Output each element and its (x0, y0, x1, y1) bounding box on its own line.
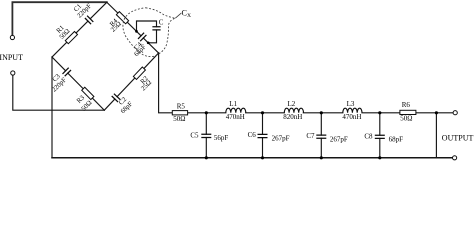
svg-text:C8: C8 (364, 132, 373, 140)
svg-text:R6: R6 (402, 101, 411, 109)
svg-text:C: C (159, 19, 164, 27)
svg-text:50Ω: 50Ω (173, 115, 185, 123)
svg-text:C7: C7 (306, 132, 315, 140)
svg-text:50Ω: 50Ω (400, 114, 412, 122)
svg-text:INPUT: INPUT (0, 53, 23, 62)
svg-text:267pF: 267pF (272, 134, 290, 142)
svg-text:68pF: 68pF (389, 136, 404, 144)
svg-text:820nH: 820nH (283, 113, 302, 121)
svg-text:L3: L3 (347, 100, 355, 108)
svg-text:L1: L1 (229, 100, 237, 108)
svg-text:470nH: 470nH (226, 113, 245, 121)
svg-text:267pF: 267pF (330, 135, 348, 143)
svg-text:C6: C6 (248, 131, 257, 139)
svg-text:L2: L2 (288, 100, 296, 108)
svg-text:56pF: 56pF (214, 134, 229, 142)
svg-text:470nH: 470nH (342, 113, 361, 121)
svg-text:OUTPUT: OUTPUT (442, 134, 474, 143)
svg-text:R5: R5 (177, 103, 186, 111)
svg-text:C5: C5 (190, 131, 199, 139)
